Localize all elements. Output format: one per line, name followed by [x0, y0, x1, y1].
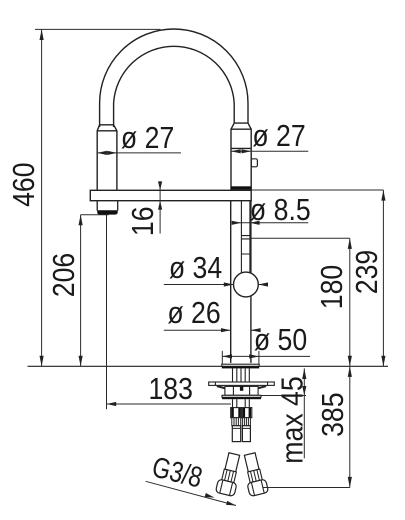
dim 183 extension	[106, 215, 108, 410]
svg-text:206: 206	[47, 253, 81, 297]
right sleeve	[231, 123, 251, 190]
dim max45 extension	[261, 395, 306, 397]
arrows o27 left	[97, 151, 107, 155]
flexible hose right	[240, 452, 268, 497]
hose connector ticks	[241, 236, 250, 254]
dim 180 line	[349, 238, 351, 366]
stud nut right	[242, 408, 252, 418]
arrow max45 top	[302, 368, 306, 379]
arrow 239 top	[381, 190, 385, 201]
dim 385 extension	[262, 487, 349, 489]
arrow 183 left	[107, 402, 117, 406]
bottom washer black band	[222, 397, 261, 399]
svg-text:183: 183	[148, 372, 192, 406]
arrows o8.5	[232, 221, 242, 225]
arrows o34	[224, 282, 234, 286]
arrow 385 bottom	[348, 477, 352, 488]
braided section left	[232, 418, 241, 426]
dim o27 right line	[231, 150, 308, 152]
hose fitting right	[242, 426, 250, 442]
washer wings	[215, 385, 267, 389]
arrow G38 mid	[205, 493, 215, 498]
dim 385 line	[349, 366, 351, 487]
spout arc inner	[114, 46, 235, 127]
svg-text:ø 27: ø 27	[121, 121, 174, 155]
dim max45 line	[303, 368, 305, 458]
base plate	[222, 364, 259, 366]
arrow 206 top	[79, 215, 83, 226]
sleeve side button	[251, 159, 257, 167]
dim 239 line	[382, 190, 384, 366]
svg-text:16: 16	[126, 206, 160, 236]
svg-text:385: 385	[316, 392, 350, 436]
shank tubes under counter	[233, 368, 250, 382]
svg-text:ø 8.5: ø 8.5	[250, 193, 311, 227]
arrow 460 bottom	[40, 356, 44, 367]
arrows o27 right	[231, 149, 241, 153]
braided section right	[242, 418, 250, 426]
svg-text:ø 27: ø 27	[252, 119, 305, 153]
dim 183 line	[107, 403, 231, 405]
arrows o50	[222, 354, 232, 358]
nut set screw	[240, 386, 243, 390]
ball handle	[234, 272, 259, 297]
horseshoe washer	[209, 382, 275, 385]
arrow 180 bottom	[348, 356, 352, 367]
G3/8 leader line	[146, 481, 236, 505]
fitting collar lines	[232, 427, 250, 429]
left sleeve	[97, 125, 117, 191]
dim 206 extension	[81, 214, 109, 216]
bottom washer	[222, 395, 261, 397]
dim 460 extension top	[35, 28, 161, 30]
countertop line right	[259, 365, 388, 367]
dimension linework	[35, 29, 383, 505]
washer end caps	[215, 382, 267, 385]
svg-text:ø 26: ø 26	[167, 296, 220, 330]
dim 239 extension	[251, 189, 383, 191]
svg-text:180: 180	[315, 265, 349, 309]
arrow 180 top	[348, 238, 352, 249]
nozzle black tip	[97, 210, 118, 214]
right sleeve black band	[231, 186, 251, 189]
svg-text:max 45: max 45	[275, 376, 309, 463]
faucet body column	[231, 201, 251, 363]
spout arm bar	[90, 190, 251, 200]
hose studs	[233, 399, 250, 407]
arrow 239 bottom	[381, 356, 385, 367]
dim o8.5 line	[233, 222, 308, 224]
stud nut left	[231, 408, 242, 418]
svg-text:ø 50: ø 50	[254, 323, 307, 357]
arrow 460 top	[40, 29, 44, 40]
arrow max45 bottom	[302, 386, 306, 396]
base plate black band	[222, 366, 259, 368]
svg-text:239: 239	[350, 250, 384, 294]
dim o50 witness lines	[222, 351, 259, 364]
flexible hose left	[215, 452, 243, 497]
dim o26 line	[164, 329, 260, 331]
arrow 16 down	[158, 181, 162, 190]
arrow G38 end	[226, 501, 236, 506]
arrow 385 top	[348, 366, 352, 377]
internal hose o8.5	[241, 201, 250, 273]
dim 180 extension	[251, 237, 350, 239]
dim o50 line	[222, 355, 310, 357]
mounting nut	[225, 386, 258, 395]
svg-text:460: 460	[7, 162, 41, 206]
countertop line left	[28, 365, 222, 367]
dim 16 line	[159, 181, 161, 233]
spray head nozzle	[97, 201, 118, 211]
arrowheads	[40, 29, 386, 505]
dim o27 left line	[97, 152, 181, 154]
dim o34 line	[164, 284, 268, 286]
arrows o26	[221, 328, 231, 332]
arrow 206 bottom	[79, 356, 83, 367]
hose fitting left	[232, 426, 240, 442]
dim 460 line	[41, 29, 43, 366]
dim 206 line	[80, 215, 82, 367]
svg-text:ø 34: ø 34	[169, 251, 222, 285]
nut facets	[233, 386, 249, 395]
spout arc outer	[100, 29, 248, 127]
arrow 16 up	[158, 201, 162, 210]
